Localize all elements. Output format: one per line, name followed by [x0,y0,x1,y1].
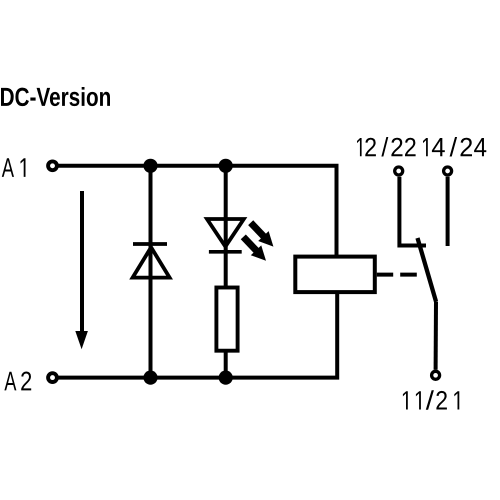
wire contact 14/24 [446,177,450,246]
resistor R1 [216,288,237,351]
diode V1 triangle [133,247,170,277]
LED light arrow 2 [238,232,271,266]
label 14/24 [423,137,486,157]
terminal 14/24 [444,167,452,175]
wire LED to resistor [224,250,228,288]
relay coil K1 [295,257,375,293]
wire A2 rail to coil bottom pin [58,292,337,378]
wire LED branch top [224,166,228,253]
mechanical link (dashed) [377,273,417,277]
node junction top left [143,159,157,173]
label 12/22 [357,137,416,157]
node junction bottom left [143,371,157,385]
LED light arrow 1 [245,218,278,252]
wire contact 12/22 with corner [399,177,426,246]
LED V2 cathode bar [209,250,242,254]
terminal A2 [48,373,57,382]
label 11/21 [403,390,459,410]
terminal 12/22 [395,167,403,175]
diode V1 cathode bar [133,242,167,246]
node junction bottom middle [219,371,233,385]
title DC-Version [1,87,110,106]
LED V2 triangle [207,219,244,247]
wire A1 rail to coil top pin [58,166,337,257]
current direction arrow [75,191,88,349]
label A1 [2,158,26,177]
switch lever [418,238,437,302]
label A2 [4,372,31,391]
wire lever to terminal 11/21 [434,302,438,370]
terminal 11/21 [432,371,440,379]
terminal A1 [48,161,57,170]
node junction top middle [219,159,233,173]
wire resistor to A2 rail [224,351,228,378]
wire diode branch [149,166,153,378]
